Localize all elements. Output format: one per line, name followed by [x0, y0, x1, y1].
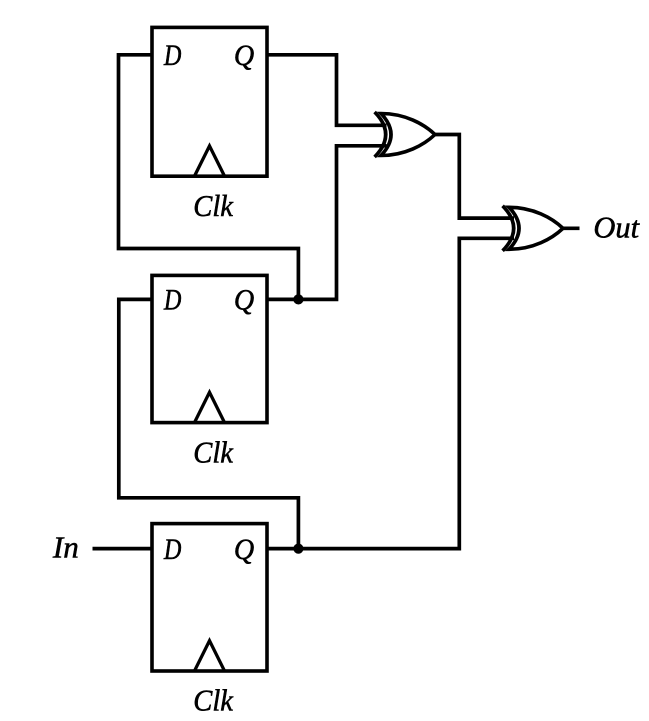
- svg-text:D: D: [163, 39, 182, 72]
- svg-text:D: D: [163, 533, 182, 566]
- svg-text:Q: Q: [234, 39, 255, 72]
- svg-text:Q: Q: [234, 284, 255, 317]
- svg-text:Out: Out: [593, 210, 640, 245]
- svg-text:Clk: Clk: [193, 434, 234, 469]
- svg-text:Clk: Clk: [193, 188, 234, 223]
- svg-text:Q: Q: [234, 533, 255, 566]
- svg-text:D: D: [163, 284, 182, 317]
- svg-text:Clk: Clk: [193, 683, 234, 718]
- svg-text:In: In: [52, 529, 79, 564]
